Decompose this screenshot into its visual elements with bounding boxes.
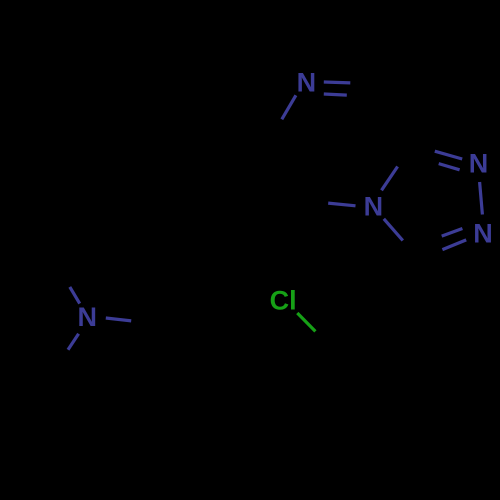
bond N4-C3 (blue half) bbox=[384, 219, 403, 241]
svg-text:N: N bbox=[364, 191, 384, 221]
svg-text:Cl: Cl bbox=[270, 286, 297, 316]
svg-text:N: N bbox=[297, 67, 317, 97]
svg-text:N: N bbox=[473, 219, 493, 249]
bond N1=C3 main line (blue half) bbox=[442, 240, 466, 250]
bond N(dimethyl)-methyl up-left (blue half) bbox=[70, 287, 80, 304]
bond C8a=N2 inner double line (blue half) bbox=[439, 164, 460, 170]
bond Cl-C(aryl) (green half) bbox=[297, 313, 315, 331]
bond N4-C8a (blue half) bbox=[382, 167, 398, 191]
bond C8a=N2 main line (blue half) bbox=[435, 151, 462, 159]
bond N2-N1 (full blue) bbox=[480, 182, 483, 215]
bond N(dimethyl)-C right (blue half) bbox=[106, 318, 131, 321]
bond N5=C6 main line (blue half) bbox=[324, 80, 351, 84]
bond N1=C3 inner double line (blue half) bbox=[442, 229, 463, 237]
svg-text:N: N bbox=[469, 149, 489, 179]
bond N5-C6a (blue half) bbox=[282, 95, 296, 119]
bond N4-C5 (blue half) bbox=[328, 203, 355, 206]
bond N5=C6 inner double line (blue half) bbox=[324, 94, 347, 95]
svg-text:N: N bbox=[77, 302, 97, 332]
bond N(dimethyl)-C down-left (blue half) bbox=[68, 334, 79, 350]
